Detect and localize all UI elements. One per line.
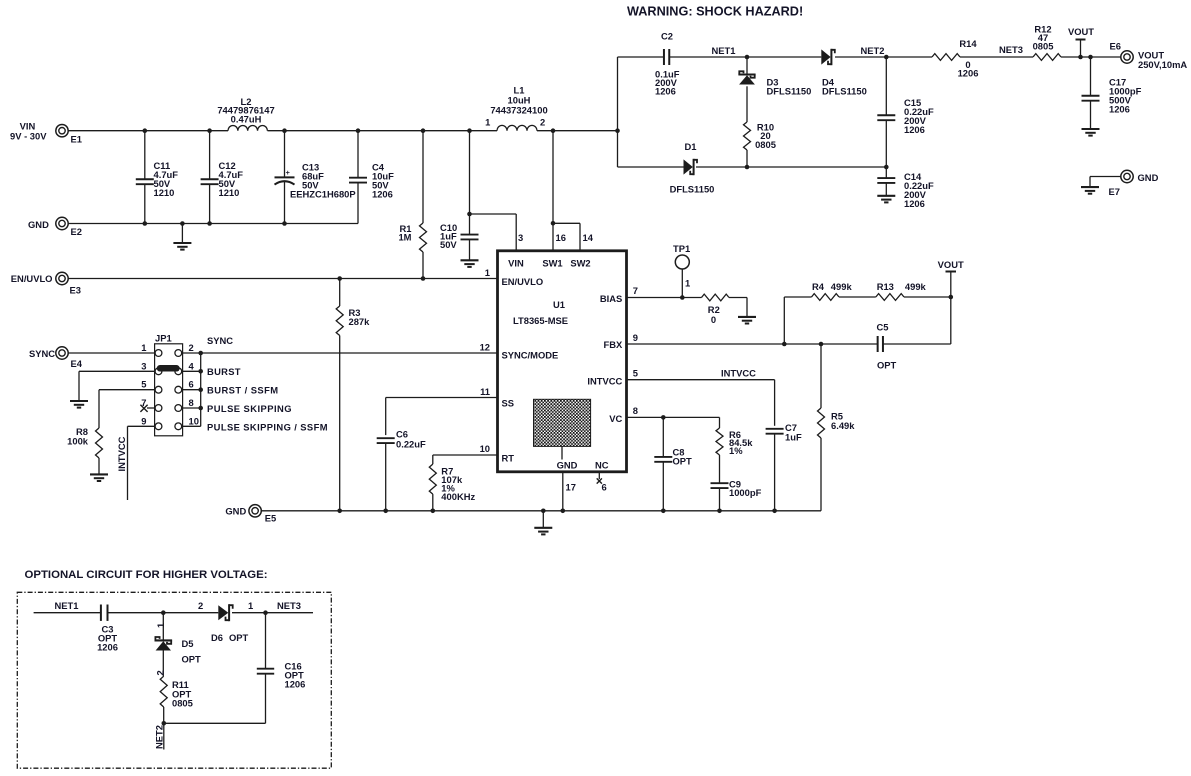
capacitor C16 xyxy=(257,668,274,670)
capacitor C17 xyxy=(1088,55,1093,60)
svg-text:1210: 1210 xyxy=(154,187,175,198)
svg-text:BURST: BURST xyxy=(207,366,241,377)
svg-text:NET2: NET2 xyxy=(154,725,165,749)
svg-text:R4: R4 xyxy=(812,281,825,292)
svg-text:3: 3 xyxy=(518,232,523,243)
svg-text:OPT: OPT xyxy=(229,632,249,643)
node GND rail junctions xyxy=(143,221,148,226)
inductor L2 xyxy=(228,125,267,130)
wire C2 branch vertical xyxy=(617,57,619,167)
test point TP1 xyxy=(675,255,689,269)
svg-text:DFLS1150: DFLS1150 xyxy=(670,184,715,195)
terminal E1 (VIN) xyxy=(56,125,68,137)
terminal E3 (EN/UVLO) xyxy=(56,272,68,284)
pin 9 JP1 xyxy=(155,423,162,430)
capacitor C13 (polarized) xyxy=(284,131,286,178)
svg-text:RT: RT xyxy=(502,453,515,464)
svg-text:12: 12 xyxy=(480,342,490,353)
svg-text:SW1: SW1 xyxy=(542,258,562,269)
capacitor C14 xyxy=(885,167,887,178)
diode D6 xyxy=(218,605,228,620)
svg-text:1: 1 xyxy=(485,267,490,278)
shunt jumper on pins 3-4 xyxy=(160,365,177,372)
wire TP1 stub xyxy=(681,269,683,298)
pin 1 JP1 xyxy=(155,350,162,357)
ground (C17) xyxy=(1082,128,1100,130)
net label NET2 with stub xyxy=(163,723,165,749)
wire D6 to NET3 xyxy=(232,612,313,614)
svg-text:1M: 1M xyxy=(398,232,411,243)
svg-text:PULSE SKIPPING: PULSE SKIPPING xyxy=(207,403,292,414)
node C15/C14 xyxy=(884,165,889,170)
svg-text:C2: C2 xyxy=(661,31,673,42)
svg-text:BURST / SSFM: BURST / SSFM xyxy=(207,385,279,396)
capacitor C15 xyxy=(885,57,887,115)
resistor R5 xyxy=(820,344,822,408)
svg-text:SYNC/MODE: SYNC/MODE xyxy=(502,350,559,361)
resistor R8 xyxy=(96,428,103,458)
capacitor C10 xyxy=(469,131,471,235)
svg-text:1: 1 xyxy=(248,600,253,611)
svg-text:10: 10 xyxy=(480,443,490,454)
svg-text:D5: D5 xyxy=(182,638,194,649)
node FBX left xyxy=(782,342,787,347)
wire C3 to D6 xyxy=(108,612,219,614)
pin 6 NC stub with X xyxy=(598,472,600,479)
svg-text:1206: 1206 xyxy=(372,189,393,200)
node VOUT divider xyxy=(949,295,954,300)
svg-text:D6: D6 xyxy=(211,632,223,643)
svg-text:2: 2 xyxy=(198,600,203,611)
resistor R2 xyxy=(702,294,730,301)
wire VIN rail xyxy=(68,130,228,132)
diode D1 xyxy=(684,159,693,174)
diode D5 xyxy=(162,613,164,641)
svg-text:PULSE SKIPPING / SSFM: PULSE SKIPPING / SSFM xyxy=(207,422,328,433)
svg-text:OPT: OPT xyxy=(182,654,202,665)
svg-text:14: 14 xyxy=(583,232,594,243)
pin 8 JP1 xyxy=(175,405,182,412)
svg-text:1206: 1206 xyxy=(904,198,925,209)
node R5 top xyxy=(819,342,824,347)
svg-text:E7: E7 xyxy=(1109,186,1120,197)
wire pin3 to ground xyxy=(79,370,155,372)
svg-text:U1: U1 xyxy=(553,299,565,310)
svg-text:E3: E3 xyxy=(70,285,81,296)
svg-text:1206: 1206 xyxy=(655,86,676,97)
svg-text:INTVCC: INTVCC xyxy=(587,376,622,387)
svg-text:E2: E2 xyxy=(71,226,82,237)
node bus junctions xyxy=(198,351,203,356)
wire GND rail xyxy=(261,510,821,512)
svg-text:OPT: OPT xyxy=(673,456,693,467)
svg-text:1: 1 xyxy=(155,623,166,628)
pin 6 JP1 xyxy=(175,386,182,393)
svg-text:1206: 1206 xyxy=(904,124,925,135)
svg-text:10: 10 xyxy=(189,415,199,426)
node D5 top xyxy=(161,610,166,615)
node TP1 junction xyxy=(680,295,685,300)
ground (main rail) xyxy=(542,511,544,528)
svg-text:VOUT: VOUT xyxy=(1068,26,1094,37)
svg-text:BIAS: BIAS xyxy=(600,293,622,304)
svg-text:287k: 287k xyxy=(349,316,371,327)
node GND rail junctions xyxy=(337,509,342,514)
resistor R13 xyxy=(876,294,904,301)
capacitor C2 xyxy=(618,56,665,58)
svg-text:0805: 0805 xyxy=(755,139,776,150)
wire C5 right to divider xyxy=(950,297,952,344)
svg-text:9: 9 xyxy=(633,332,638,343)
node C16 top xyxy=(263,610,268,615)
wire SW2 branch xyxy=(551,221,556,226)
svg-text:4: 4 xyxy=(189,360,195,371)
svg-text:+: + xyxy=(286,168,290,177)
ground (R2) xyxy=(738,316,756,318)
svg-text:3: 3 xyxy=(141,360,146,371)
svg-text:1: 1 xyxy=(485,117,490,128)
node R3 top xyxy=(337,276,342,281)
svg-text:7: 7 xyxy=(633,285,638,296)
resistor R7 xyxy=(429,464,436,494)
svg-text:0: 0 xyxy=(711,314,716,325)
node NET2 xyxy=(884,55,889,60)
terminal E7 (GND) xyxy=(1121,170,1133,182)
svg-text:1210: 1210 xyxy=(219,187,240,198)
svg-text:OPT: OPT xyxy=(877,360,897,371)
svg-text:NET1: NET1 xyxy=(712,45,736,56)
node NET1 xyxy=(745,55,750,60)
svg-text:E1: E1 xyxy=(71,134,82,145)
svg-text:0.47uH: 0.47uH xyxy=(231,114,262,125)
capacitor C6 xyxy=(377,437,395,439)
wire C10 to VIN pin xyxy=(470,213,517,215)
node R1 bottom xyxy=(421,276,426,281)
diode D3 xyxy=(746,57,748,75)
svg-text:GND: GND xyxy=(557,459,578,470)
node C8 top xyxy=(661,415,666,420)
svg-text:8: 8 xyxy=(633,405,638,416)
svg-text:VIN: VIN xyxy=(508,258,524,269)
resistor R1 xyxy=(422,131,424,223)
svg-text:GND: GND xyxy=(225,506,246,517)
svg-text:9V - 30V: 9V - 30V xyxy=(10,131,47,142)
node R10 bottom xyxy=(745,165,750,170)
svg-text:WARNING: SHOCK HAZARD!: WARNING: SHOCK HAZARD! xyxy=(627,4,803,18)
wire EN/UVLO line xyxy=(68,278,498,280)
wire R4 to R13 xyxy=(839,296,876,298)
capacitor C8 xyxy=(662,417,664,456)
svg-text:NC: NC xyxy=(595,459,609,470)
resistor R6 xyxy=(716,428,723,455)
svg-text:250V,10mA: 250V,10mA xyxy=(1138,59,1187,70)
exposed pad (hatched) xyxy=(534,399,591,446)
svg-text:EN/UVLO: EN/UVLO xyxy=(11,273,53,284)
connector JP1 box xyxy=(155,344,183,436)
resistor R11 xyxy=(160,676,167,707)
ground (input rail) xyxy=(181,224,183,244)
svg-text:499k: 499k xyxy=(905,281,927,292)
svg-text:11: 11 xyxy=(480,386,490,397)
node VIN rail junctions xyxy=(143,128,148,133)
svg-text:1206: 1206 xyxy=(1109,104,1130,115)
capacitor C5 xyxy=(877,336,879,352)
svg-text:400KHz: 400KHz xyxy=(441,491,475,502)
svg-text:GND: GND xyxy=(28,219,49,230)
wire R13 to VOUT node xyxy=(904,296,951,298)
wire VC line xyxy=(627,416,720,418)
svg-text:0805: 0805 xyxy=(172,698,193,709)
svg-text:6.49k: 6.49k xyxy=(831,420,855,431)
ground (JP1 pin3) xyxy=(70,400,88,402)
node NET2 junction xyxy=(162,721,167,726)
svg-text:1206: 1206 xyxy=(97,642,118,653)
svg-text:2: 2 xyxy=(155,670,166,675)
svg-text:E5: E5 xyxy=(265,513,276,524)
wire FBX up left xyxy=(783,297,785,344)
pin 10 JP1 xyxy=(175,423,182,430)
svg-text:OPTIONAL CIRCUIT FOR HIGHER VO: OPTIONAL CIRCUIT FOR HIGHER VOLTAGE: xyxy=(25,569,268,581)
capacitor C7 xyxy=(766,428,784,430)
svg-text:E4: E4 xyxy=(71,358,83,369)
resistor R10 xyxy=(744,122,751,150)
svg-text:VC: VC xyxy=(609,413,622,424)
svg-text:1206: 1206 xyxy=(958,68,979,79)
svg-text:0805: 0805 xyxy=(1033,41,1054,52)
terminal E5 (GND) xyxy=(249,505,261,517)
svg-text:C5: C5 xyxy=(877,322,889,333)
svg-text:DFLS1150: DFLS1150 xyxy=(767,86,812,97)
svg-text:0.22uF: 0.22uF xyxy=(396,439,426,450)
wire NET1 segment xyxy=(34,612,102,614)
svg-text:1uF: 1uF xyxy=(785,432,802,443)
capacitor C12 xyxy=(209,131,211,179)
wire NET1 to D4 xyxy=(747,56,821,58)
wire pin5 to R8 xyxy=(99,389,155,391)
terminal E2 (GND) xyxy=(56,217,68,229)
svg-text:17: 17 xyxy=(566,482,576,493)
capacitor C11 xyxy=(144,131,146,179)
wire INTVCC line xyxy=(627,379,775,381)
svg-text:1000pF: 1000pF xyxy=(729,487,762,498)
pin 7 no-connect X xyxy=(147,407,155,409)
ground (R8) xyxy=(90,473,108,475)
diode D4 xyxy=(821,49,830,64)
svg-text:JP1: JP1 xyxy=(155,333,172,344)
svg-text:SYNC: SYNC xyxy=(207,335,233,346)
wire pin9 INTVCC stub xyxy=(128,425,156,427)
svg-text:2: 2 xyxy=(540,117,545,128)
wire pin 17 GND xyxy=(562,472,564,511)
terminal E6 (VOUT) xyxy=(1121,51,1133,63)
capacitor C4 xyxy=(357,131,359,178)
svg-text:1: 1 xyxy=(685,278,690,289)
wire pad stem xyxy=(561,446,563,459)
svg-text:100k: 100k xyxy=(67,435,89,446)
svg-text:5: 5 xyxy=(633,368,638,379)
svg-text:SS: SS xyxy=(502,398,515,409)
ground (C10) xyxy=(461,259,479,261)
svg-text:8: 8 xyxy=(189,397,194,408)
svg-text:SW2: SW2 xyxy=(570,258,590,269)
terminal E4 (SYNC) xyxy=(56,347,68,359)
wire GND input rail xyxy=(68,223,358,225)
svg-text:D1: D1 xyxy=(685,141,697,152)
wire bus pins 2-10 xyxy=(182,370,201,372)
svg-text:R13: R13 xyxy=(877,281,894,292)
resistor R4 xyxy=(812,294,840,301)
wire SS line xyxy=(386,397,498,399)
wire R2 to ground xyxy=(746,298,748,317)
inductor L1 xyxy=(497,125,537,130)
svg-text:6: 6 xyxy=(189,379,194,390)
svg-text:EEHZC1H680P: EEHZC1H680P xyxy=(290,189,356,200)
svg-text:FBX: FBX xyxy=(604,339,623,350)
op-amp U1 LT8365-MSE body xyxy=(498,251,627,472)
capacitor C3 xyxy=(100,605,102,621)
wire FBX line xyxy=(627,343,878,345)
wire SYNC line xyxy=(68,352,155,354)
svg-text:5: 5 xyxy=(141,379,146,390)
svg-text:SYNC: SYNC xyxy=(29,348,55,359)
ground (E7) xyxy=(1081,186,1099,188)
ground (C14) xyxy=(877,195,895,197)
wire BIAS line xyxy=(627,297,702,299)
svg-text:DFLS1150: DFLS1150 xyxy=(822,86,867,97)
pin 5 JP1 xyxy=(155,386,162,393)
svg-text:1%: 1% xyxy=(729,445,743,456)
svg-text:R14: R14 xyxy=(959,38,977,49)
svg-text:GND: GND xyxy=(1138,172,1159,183)
svg-text:NET3: NET3 xyxy=(999,44,1023,55)
svg-text:1: 1 xyxy=(141,342,146,353)
wire RT line xyxy=(433,454,498,456)
svg-text:INTVCC: INTVCC xyxy=(116,436,127,471)
svg-text:EN/UVLO: EN/UVLO xyxy=(502,276,544,287)
svg-text:1206: 1206 xyxy=(285,679,306,690)
svg-text:TP1: TP1 xyxy=(673,243,690,254)
svg-text:NET3: NET3 xyxy=(277,600,301,611)
wire D1 rail xyxy=(618,166,684,168)
wire E7 to ground xyxy=(1090,176,1121,178)
capacitor C9 xyxy=(711,482,729,484)
resistor R12 xyxy=(1033,54,1061,61)
svg-text:NET2: NET2 xyxy=(861,45,885,56)
svg-text:VOUT: VOUT xyxy=(938,259,964,270)
svg-text:50V: 50V xyxy=(440,239,457,250)
svg-text:9: 9 xyxy=(141,415,146,426)
pin 3 JP1 xyxy=(155,368,162,375)
resistor R14 xyxy=(886,56,932,58)
wire bottom link to C16 xyxy=(164,722,266,724)
pin 7 JP1 xyxy=(155,405,162,412)
pin 2 JP1 xyxy=(175,350,182,357)
svg-text:E6: E6 xyxy=(1110,41,1121,52)
resistor R3 xyxy=(339,279,341,307)
svg-text:16: 16 xyxy=(556,232,566,243)
svg-text:LT8365-MSE: LT8365-MSE xyxy=(513,315,568,326)
svg-text:2: 2 xyxy=(189,342,194,353)
svg-text:499k: 499k xyxy=(831,281,853,292)
svg-text:INTVCC: INTVCC xyxy=(721,368,756,379)
wire SW1 drop xyxy=(552,131,554,250)
svg-text:74437324100: 74437324100 xyxy=(490,105,547,116)
pin 4 JP1 xyxy=(175,368,182,375)
svg-text:NET1: NET1 xyxy=(55,600,79,611)
border dash-dot box xyxy=(17,592,331,768)
